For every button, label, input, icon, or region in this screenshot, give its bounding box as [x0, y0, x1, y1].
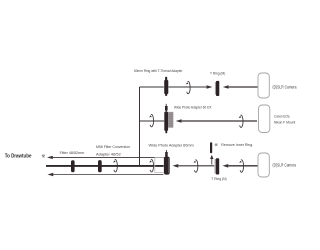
svg-text:To Drawtube: To Drawtube [5, 154, 32, 160]
svg-text:Nikon F Mount: Nikon F Mount [274, 120, 296, 125]
svg-text:M56 Filter Conversion: M56 Filter Conversion [96, 144, 130, 149]
svg-text:Wide Photo Adapter 60 DX: Wide Photo Adapter 60 DX [174, 105, 212, 110]
svg-text:60mm Ring with T-Thread Adapte: 60mm Ring with T-Thread Adapter [134, 68, 183, 73]
svg-text:(D)SLR Camera: (D)SLR Camera [273, 162, 297, 167]
svg-text:※: ※ [214, 142, 218, 147]
svg-text:(D)SLR Camera: (D)SLR Camera [273, 84, 298, 89]
svg-text:Canon EOS,: Canon EOS, [274, 113, 290, 118]
svg-text:Remove Inner Ring.: Remove Inner Ring. [221, 142, 253, 147]
svg-text:Filter 48/52mm: Filter 48/52mm [60, 150, 85, 155]
svg-text:※: ※ [41, 153, 45, 159]
svg-text:T Ring (M): T Ring (M) [210, 71, 226, 76]
svg-text:Wide Photo Adapter 60mm: Wide Photo Adapter 60mm [149, 143, 195, 148]
svg-text:Adapter 46/52: Adapter 46/52 [96, 152, 122, 157]
svg-text:T Ring (N): T Ring (N) [211, 176, 227, 181]
